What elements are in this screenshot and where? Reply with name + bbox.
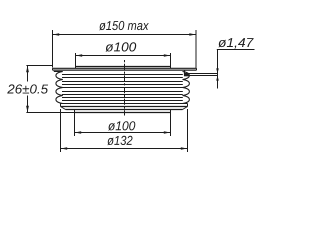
device: rib line 1 (62, 74, 183, 76)
dimension D150: right arrowhead (189, 33, 195, 36)
device: rib line 6 (62, 91, 183, 93)
dimension 26: bottom arrowhead (26, 106, 29, 112)
device: rib line 2 (62, 77, 183, 79)
dimension D1.47: lower arrowhead (points up at tab) (216, 76, 219, 81)
device: pole piece right edge tick (170, 67, 172, 69)
dimension D100 bottom: right arrowhead (164, 131, 170, 134)
centerline (dash-dot axis) (124, 60, 126, 116)
device: gate tab upper line (185, 73, 218, 75)
device: rib line 8 (62, 97, 183, 99)
label D100 bottom (108, 121, 135, 130)
device: rib line 4 (62, 84, 183, 86)
device: top flange lower face (53, 69, 197, 71)
dimension D132: right arrowhead (181, 147, 187, 150)
dimension D132: left arrowhead (61, 147, 67, 150)
device: bottom face (66, 109, 183, 111)
device: rib line 7 (62, 94, 183, 96)
device: bottom pole piece face (D100) (75, 112, 171, 114)
dimension 26: top arrowhead (26, 66, 29, 72)
dimension D1.47: upper arrowhead (points down at tab) (216, 68, 219, 73)
label D150 max (99, 21, 149, 30)
dimension D100 top: left arrowhead (76, 54, 82, 57)
dimension 26: vertical dimension line (upper segment) (27, 66, 29, 82)
dimension D100 bottom: dimension line (75, 132, 171, 134)
device: top pole piece face (D100) (76, 66, 171, 68)
device: top flange right rim (196, 68, 198, 70)
device: pole piece left edge tick (75, 67, 77, 69)
dimension D1.47: vertical dimension line (217, 50, 219, 89)
label D132 (107, 136, 132, 145)
device: ceramic body right corrugated edge (183, 72, 190, 104)
device: gate tab lower line (185, 75, 218, 77)
device: rib line 5 (62, 87, 183, 89)
dimension D132: right extension line (187, 109, 189, 152)
device: gate tab attachment blob (184, 73, 189, 76)
dimension 26: vertical dimension line (lower segment) (27, 96, 29, 113)
dimension D132: left extension line (60, 109, 62, 152)
label D100 top (106, 42, 137, 51)
device: ceramic body left corrugated edge (56, 72, 63, 104)
device: bottom pole piece right edge (170, 110, 172, 113)
device: bottom pole piece left edge (74, 110, 76, 113)
device: rib line 9 (62, 100, 183, 102)
device: gate tab root (184, 70, 186, 75)
device: top flange left rim (52, 68, 54, 70)
device: ceramic top shoulder line left (54, 71, 62, 73)
dimension D100 top: right extension line (170, 53, 172, 67)
dimension D132: dimension line (61, 148, 188, 150)
dimension 26: top extension line (26, 65, 52, 67)
dimension D100 bottom: right extension line (170, 113, 172, 137)
device: top flange upper face (D150 plate) (53, 67, 197, 69)
label 26 +/- 0.5 (7, 84, 48, 93)
device: bottom flange left side (60, 104, 62, 107)
dimension D150: dimension line (53, 34, 197, 36)
dimension D1.47: leader shelf line (217, 49, 255, 51)
device: bottom flange left chamfer (61, 107, 66, 110)
dimension D100 top: left extension line (75, 53, 77, 67)
label D1.47 (218, 38, 253, 49)
dimension D150: left extension line (52, 30, 54, 68)
dimension D100 bottom: left extension line (74, 113, 76, 137)
device: bottom flange right chamfer (183, 107, 188, 110)
dimension D100 bottom: left arrowhead (75, 131, 81, 134)
dimension D150: left arrowhead (53, 33, 59, 36)
dimension D150: right extension line (195, 30, 197, 68)
device: bottom flange top edge (61, 103, 188, 105)
device: bottom flange chamfer line (61, 106, 188, 108)
dimension 26: bottom extension line (26, 112, 74, 114)
device: rib line 3 (62, 81, 183, 83)
dimension D100 top: right arrowhead (164, 54, 170, 57)
dimension D100 top: dimension line (76, 55, 171, 57)
device: bottom flange right side (187, 104, 189, 107)
